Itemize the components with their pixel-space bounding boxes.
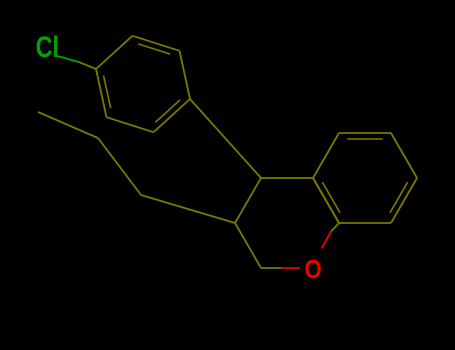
svg-text:Cl: Cl [36,30,59,63]
svg-text:O: O [305,255,322,284]
